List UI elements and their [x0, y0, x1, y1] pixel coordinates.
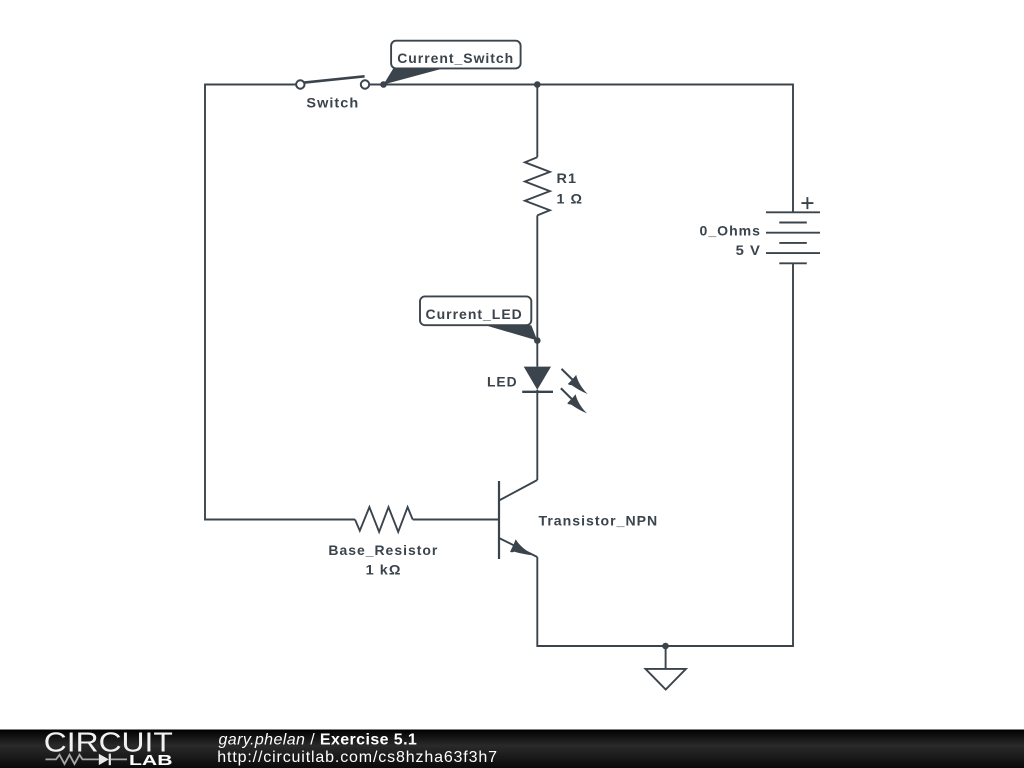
- svg-text:LED: LED: [487, 374, 518, 390]
- ground GND: [646, 646, 686, 690]
- node Current_LED junction: [534, 337, 541, 344]
- wire top-left, left side and base lead: [205, 85, 355, 520]
- footer url text: [217, 749, 498, 766]
- transistor Q1 NPN: [499, 480, 658, 559]
- wire emitter to bottom rail left half: [537, 557, 665, 646]
- svg-text:Current_Switch: Current_Switch: [397, 50, 514, 66]
- wire R1 to LED: [536, 215, 538, 366]
- callout Current_LED: [420, 296, 537, 340]
- CircuitLab logo resistor-diode glyph: [46, 754, 128, 766]
- node ground junction: [662, 643, 669, 650]
- svg-text:gary.phelan / Exercise 5.1: gary.phelan / Exercise 5.1: [219, 732, 418, 749]
- footer title text: [219, 732, 418, 749]
- LED D1: [487, 367, 588, 414]
- battery 0_Ohms: [700, 197, 821, 263]
- wire R1 branch top: [536, 85, 538, 158]
- svg-text:5 V: 5 V: [736, 242, 761, 258]
- svg-text:http://circuitlab.com/cs8hzha6: http://circuitlab.com/cs8hzha63f3h7: [217, 749, 498, 766]
- svg-text:1 kΩ: 1 kΩ: [366, 561, 402, 577]
- CircuitLab logo wordmark CIRCUIT: [44, 726, 173, 757]
- wire battery negative lead and bottom rail right half: [666, 263, 793, 646]
- svg-text:R1: R1: [557, 170, 578, 186]
- svg-text:0_Ohms: 0_Ohms: [700, 223, 762, 239]
- wire LED to transistor collector: [536, 390, 538, 480]
- node Current_Switch junction: [380, 81, 387, 88]
- switch SW1: [296, 76, 369, 110]
- svg-text:Transistor_NPN: Transistor_NPN: [539, 513, 659, 529]
- svg-text:1 Ω: 1 Ω: [557, 190, 584, 206]
- resistor R1: [525, 157, 583, 215]
- node R1 top junction: [534, 81, 541, 88]
- CircuitLab logo wordmark LAB: [129, 752, 173, 768]
- svg-text:LAB: LAB: [129, 752, 173, 768]
- callout Current_Switch: [384, 41, 521, 85]
- svg-text:Base_Resistor: Base_Resistor: [328, 542, 438, 558]
- svg-text:Switch: Switch: [306, 94, 359, 110]
- wire base resistor to transistor base: [413, 519, 499, 521]
- wire switch to top-right corner and battery positive lead: [369, 85, 793, 213]
- resistor Base_Resistor: [328, 507, 438, 577]
- footer bar: [0, 730, 1024, 768]
- svg-text:Current_LED: Current_LED: [426, 306, 523, 322]
